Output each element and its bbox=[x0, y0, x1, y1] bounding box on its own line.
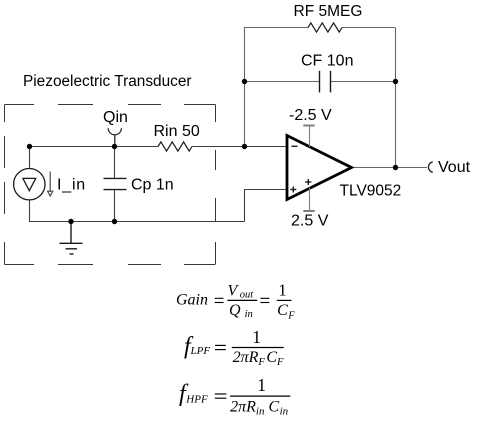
svg-text:Piezoelectric Transducer: Piezoelectric Transducer bbox=[23, 73, 192, 90]
wire: Cp bottom stub bbox=[114, 190, 116, 222]
svg-text:CF 10n: CF 10n bbox=[301, 53, 353, 70]
junction at Qin node bbox=[112, 144, 117, 149]
wire: output bbox=[352, 167, 428, 169]
op-amp non-inverting pin mark bbox=[290, 187, 296, 193]
wire: Cp top stub bbox=[114, 147, 116, 179]
junction at CF left bbox=[242, 79, 247, 84]
wire: non-inverting input riser bbox=[245, 190, 288, 222]
wire: feedback top rail right bbox=[342, 27, 395, 29]
positive supply pin bbox=[303, 188, 314, 212]
svg-text:1: 1 bbox=[257, 375, 266, 395]
equation fLPF = 1/(2 pi RF CF) bbox=[184, 327, 284, 368]
svg-text:LPF: LPF bbox=[190, 345, 211, 357]
svg-text:Rin 50: Rin 50 bbox=[154, 123, 200, 140]
svg-text:1: 1 bbox=[252, 327, 261, 347]
ground bbox=[60, 222, 83, 255]
current source I_in bbox=[14, 169, 45, 200]
wire: feedback top rail left bbox=[244, 27, 308, 29]
svg-text:Qin: Qin bbox=[229, 302, 253, 320]
junction at CF right bbox=[393, 79, 398, 84]
equation Gain = Vout/Qin = 1/CF bbox=[176, 281, 295, 322]
svg-text:2πRFCF: 2πRFCF bbox=[233, 349, 284, 368]
junction at ground tap bbox=[68, 219, 73, 224]
wire: bottom rail bbox=[29, 221, 245, 223]
svg-text:1: 1 bbox=[278, 281, 287, 300]
svg-text:RF 5MEG: RF 5MEG bbox=[294, 3, 363, 20]
wire: top rail from current source to Rin bbox=[29, 146, 158, 148]
svg-text:-2.5 V: -2.5 V bbox=[289, 107, 332, 124]
op-amp inverting pin mark bbox=[292, 145, 298, 147]
junction at inverting node bbox=[242, 144, 247, 149]
wire: feedback left vertical bbox=[244, 28, 246, 147]
wire: CF branch right bbox=[331, 81, 396, 83]
op-amp internal plus mark bbox=[305, 179, 311, 185]
svg-text:Cp 1n: Cp 1n bbox=[131, 177, 174, 194]
transducer boundary dashed box bbox=[5, 105, 216, 265]
svg-text:Vout: Vout bbox=[438, 159, 471, 176]
junction at output node bbox=[393, 165, 398, 170]
wire: Rin to op-amp inverting input bbox=[192, 146, 287, 148]
capacitor CF 10n bbox=[320, 71, 331, 93]
wire: feedback right vertical bbox=[395, 28, 397, 168]
svg-text:Vout: Vout bbox=[228, 283, 255, 301]
I_in arrow bbox=[48, 172, 53, 197]
op-amp U1 triangle bbox=[287, 136, 352, 200]
wire: CF branch left bbox=[244, 81, 320, 83]
wire: current source top stub bbox=[29, 147, 31, 169]
junction at Cp bottom bbox=[112, 219, 117, 224]
svg-text:CF: CF bbox=[277, 302, 295, 321]
node Vout connector bbox=[428, 162, 432, 173]
svg-text:TLV9052: TLV9052 bbox=[340, 183, 402, 200]
negative supply pin bbox=[303, 126, 314, 148]
svg-text:Qin: Qin bbox=[103, 109, 128, 126]
resistor Rin 50 bbox=[158, 142, 192, 151]
node Qin flag bbox=[108, 128, 121, 146]
svg-text:2.5 V: 2.5 V bbox=[291, 213, 329, 230]
resistor RF 5MEG bbox=[308, 23, 342, 32]
svg-text:I_in: I_in bbox=[57, 177, 86, 194]
svg-text:Gain: Gain bbox=[176, 292, 208, 309]
wire: current source bottom stub bbox=[29, 200, 31, 222]
svg-text:HPF: HPF bbox=[185, 394, 208, 406]
junction at current source top bbox=[27, 144, 32, 149]
equation fHPF = 1/(2 pi Rin Cin) bbox=[179, 375, 290, 418]
capacitor Cp 1n bbox=[104, 178, 127, 189]
svg-text:2πRinCin: 2πRinCin bbox=[230, 398, 289, 417]
